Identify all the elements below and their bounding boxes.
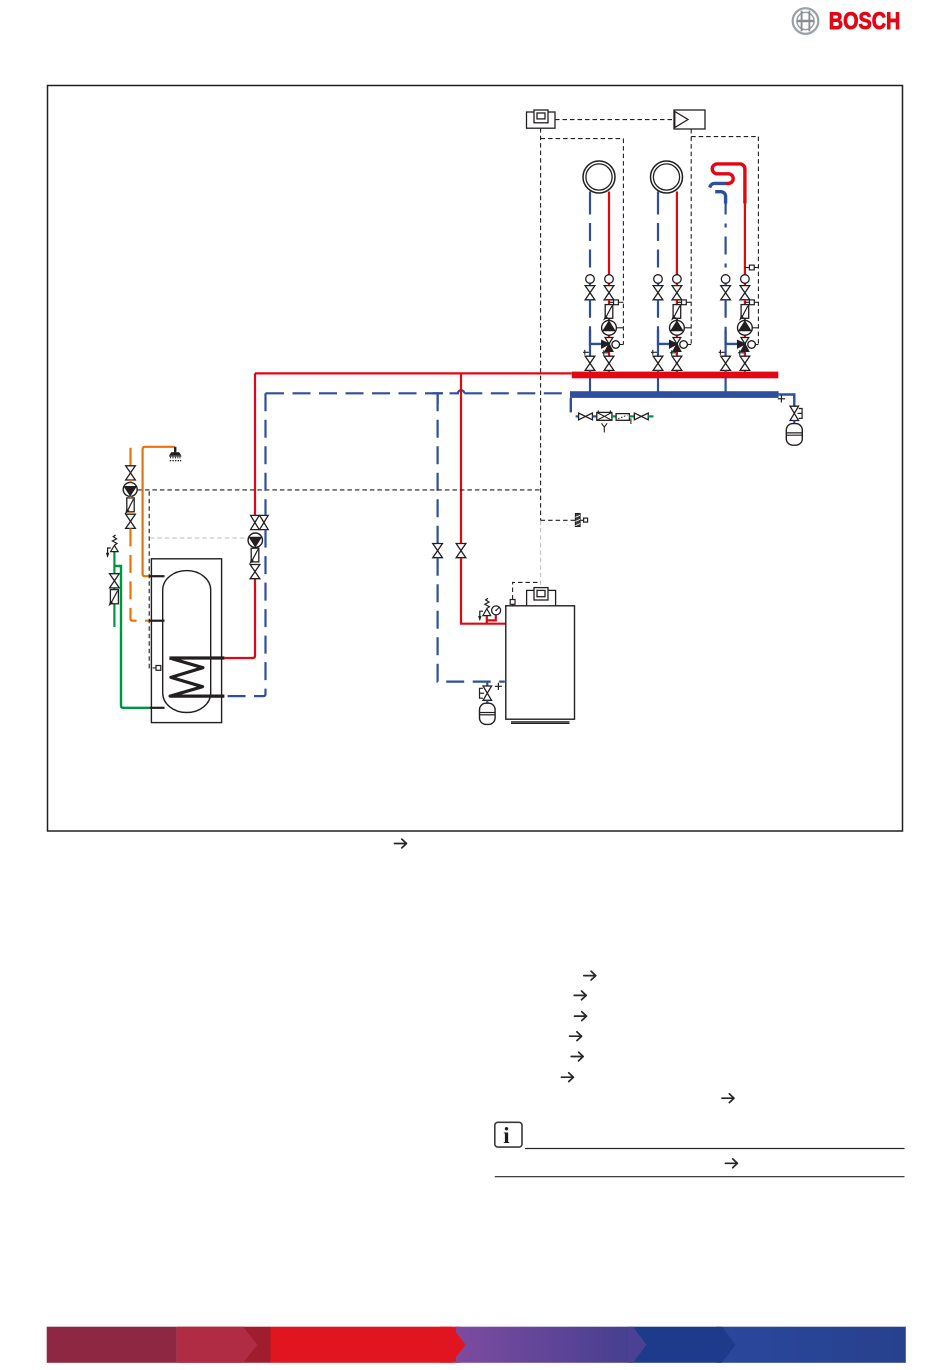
circuit 1 supply valve — [604, 286, 614, 300]
expansion vessel heating — [786, 421, 802, 446]
dhw storage tank — [151, 559, 221, 723]
control wire circuit2 right — [690, 137, 692, 345]
boiler safety valve — [478, 598, 495, 623]
return pipe manifold-to-tank — [266, 390, 570, 393]
circuit 3 mixing valve — [738, 338, 759, 352]
circuit 3 pump — [738, 320, 759, 335]
boiler expansion cap valve — [480, 686, 492, 700]
circuit 2 supply pipe upper — [676, 192, 678, 275]
tank return riser — [264, 393, 267, 515]
tank supply pipe — [224, 579, 255, 658]
reference arrow main — [395, 839, 407, 848]
list arrow 4 — [570, 1032, 582, 1041]
circuit 1 return drain cock — [583, 350, 590, 355]
system fill group — [576, 410, 654, 432]
circuit 1 mixing valve — [602, 338, 624, 352]
info icon — [495, 1122, 522, 1148]
boiler bus terminal — [510, 600, 515, 606]
bosch logo text — [829, 8, 901, 35]
circuit 2 supply valve — [672, 286, 682, 300]
cold water feed to tank — [114, 566, 149, 708]
circuit 3 supply valve — [740, 286, 750, 300]
circulation pump — [123, 480, 137, 496]
tank cold water stub — [149, 707, 164, 709]
radiator circuit 2 — [651, 161, 683, 193]
tank temperature sensor — [156, 666, 161, 671]
circuit 3 supply drain cock — [738, 350, 745, 355]
control wire circuit23 drop — [690, 129, 692, 137]
circuit 1 check valve — [604, 305, 613, 320]
list arrow 3 — [575, 1012, 587, 1021]
boiler expansion tee — [486, 682, 488, 686]
boiler fill point — [495, 683, 502, 690]
brand banner — [47, 1327, 906, 1363]
svg-text:BOSCH: BOSCH — [829, 8, 901, 35]
circuit 3 supply pipe upper — [744, 204, 746, 275]
list arrow 6 — [561, 1073, 573, 1082]
circuit 2 return shutoff valve — [653, 344, 663, 392]
cold water safety valve — [106, 535, 118, 557]
circuit 2 return thermometer — [654, 275, 663, 286]
control bus wire — [555, 119, 674, 121]
control wire to hot water module — [137, 489, 540, 491]
info arrow — [725, 1159, 737, 1168]
boiler return valve — [433, 544, 443, 558]
control wire circuit23 top — [691, 136, 758, 138]
circuit 2 mixing valve — [670, 338, 692, 352]
boiler — [506, 606, 575, 724]
boiler supply pipe — [461, 558, 506, 624]
circuit 1 pump — [602, 320, 624, 335]
list arrow 2 — [574, 991, 586, 1000]
sensor wire horizontal — [541, 519, 576, 521]
list arrow 1 — [584, 971, 596, 980]
outdoor sensor unit — [674, 110, 705, 129]
boiler supply valve — [456, 544, 466, 558]
supply pipe tank-to-manifold — [255, 372, 572, 374]
tank return valve — [260, 515, 269, 529]
circuit 3 return pipe upper — [724, 197, 726, 275]
info rule top — [525, 1148, 905, 1150]
circuit 2 return valve — [653, 286, 663, 300]
boiler return riser — [437, 393, 439, 543]
return to expansion vessel — [779, 395, 795, 407]
boiler bus wire — [513, 582, 540, 599]
tank sensor wire — [149, 491, 156, 668]
supply manifold — [572, 372, 779, 379]
circuit 2 supply shutoff valve — [672, 356, 682, 370]
underfloor heating circuit 3 — [710, 164, 745, 204]
circuit 1 flow temperature sensor — [609, 300, 623, 305]
tank dhw outlet stub — [150, 575, 165, 577]
boiler control panel — [527, 588, 556, 606]
circuit 2 check valve — [672, 305, 681, 320]
tank heat exchanger coil — [170, 658, 225, 696]
svg-text:i: i — [503, 1123, 510, 1148]
circuit 2 return pipe upper — [657, 192, 659, 275]
boiler return pipe — [438, 558, 505, 682]
circulation pipe lower — [131, 528, 149, 620]
boiler pressure gauge — [492, 606, 501, 615]
dhw circulation pipe upper — [129, 448, 131, 466]
circuit 1 return shutoff valve — [585, 344, 595, 392]
circuit 3 supply pipe group — [744, 300, 746, 372]
tank loading valve upper — [251, 515, 260, 529]
circuit 3 return shutoff valve — [721, 344, 731, 392]
shower tap — [169, 447, 181, 462]
circuit 3 return valve — [721, 286, 731, 300]
circulation valve lower — [126, 512, 136, 529]
tank return pipe — [225, 530, 266, 697]
boiler return tee — [433, 393, 443, 404]
control wire circuit1 top — [541, 138, 624, 140]
circuit 3 flow sensor — [745, 265, 759, 270]
pump sensor lead — [150, 537, 248, 539]
expansion vessel cap valve — [790, 406, 802, 420]
circuit 1 supply drain cock — [602, 350, 609, 355]
circuit 1 return pipe upper — [589, 192, 591, 275]
circuit 2 supply thermometer — [673, 275, 682, 286]
cold water check valve — [109, 590, 118, 606]
circuit 2 return drain cock — [651, 350, 658, 355]
circulation check valve — [125, 496, 134, 513]
tank loading pump — [248, 533, 262, 547]
boiler expansion vessel — [480, 700, 496, 724]
tank circulation stub — [149, 620, 165, 622]
circuit 3 flow temperature sensor — [745, 300, 759, 305]
circuit 3 return drain cock — [719, 350, 726, 355]
circuit 1 supply shutoff valve — [604, 356, 614, 370]
circuit 1 supply thermometer — [605, 275, 614, 286]
circuit 3 supply thermometer — [741, 275, 750, 286]
circuit 1 supply pipe group — [608, 300, 610, 372]
circuit 1 return to mixer — [590, 300, 602, 344]
control wire circuit1 drop — [540, 128, 542, 520]
fill point marker — [778, 395, 785, 402]
circuit 2 supply pipe group — [676, 300, 678, 372]
tank loading valve lower — [250, 565, 260, 579]
note arrow — [722, 1094, 734, 1103]
tank supply riser — [254, 373, 256, 515]
circuit 2 return to mixer — [658, 300, 670, 344]
circuit 2 supply drain cock — [670, 350, 677, 355]
system controller — [527, 110, 556, 128]
circuit 1 supply pipe upper — [608, 192, 610, 275]
circulation valve upper — [126, 466, 136, 480]
circuit 1 return valve — [585, 286, 595, 300]
tank loading check valve — [250, 548, 259, 563]
circuit 3 return thermometer — [721, 275, 730, 286]
dhw outlet pipe — [143, 447, 175, 576]
return manifold — [570, 391, 779, 398]
sensor lead — [540, 520, 542, 589]
diagram frame — [48, 86, 903, 832]
fill line drop — [570, 398, 572, 413]
flue gas sensor — [575, 514, 587, 527]
circuit 3 return to mixer — [726, 300, 738, 344]
list arrow 5 — [571, 1052, 583, 1061]
control wire circuit1 right — [622, 139, 624, 345]
radiator circuit 1 — [583, 161, 615, 193]
boiler supply riser — [460, 373, 462, 543]
cold water valve — [110, 574, 120, 588]
circuit 2 flow temperature sensor — [677, 300, 691, 305]
bosch logo symbol — [793, 8, 819, 34]
control wire circuit3 right — [757, 137, 759, 345]
circuit 2 pump — [670, 320, 692, 335]
cold water inlet pipe — [113, 557, 115, 628]
circuit 3 check valve — [740, 305, 749, 320]
circuit 3 supply shutoff valve — [740, 356, 750, 370]
info rule bottom — [495, 1176, 905, 1178]
circuit 1 return thermometer — [586, 275, 595, 286]
